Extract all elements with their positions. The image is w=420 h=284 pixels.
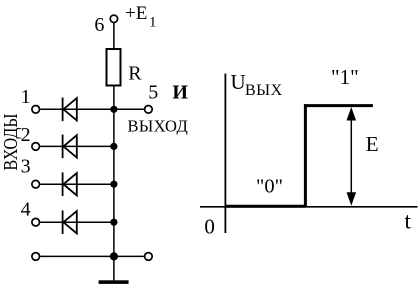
svg-text:0: 0: [204, 215, 215, 239]
svg-text:"1": "1": [331, 65, 359, 89]
svg-text:t: t: [405, 209, 412, 234]
svg-text:2: 2: [21, 124, 31, 146]
svg-text:И: И: [172, 81, 188, 103]
svg-text:+E: +E: [125, 3, 147, 24]
svg-text:6: 6: [94, 14, 104, 36]
svg-text:U: U: [231, 70, 246, 94]
svg-text:ВЫХОД: ВЫХОД: [128, 117, 189, 136]
svg-text:1: 1: [21, 86, 31, 108]
svg-text:1: 1: [149, 14, 157, 30]
svg-text:ВЫХ: ВЫХ: [245, 82, 283, 99]
svg-text:ВХОДЫ: ВХОДЫ: [0, 114, 22, 171]
svg-text:E: E: [366, 132, 379, 156]
svg-text:R: R: [128, 62, 142, 84]
svg-text:4: 4: [21, 198, 31, 220]
svg-text:5: 5: [148, 81, 158, 103]
svg-text:"0": "0": [256, 176, 283, 198]
svg-text:3: 3: [21, 155, 31, 177]
